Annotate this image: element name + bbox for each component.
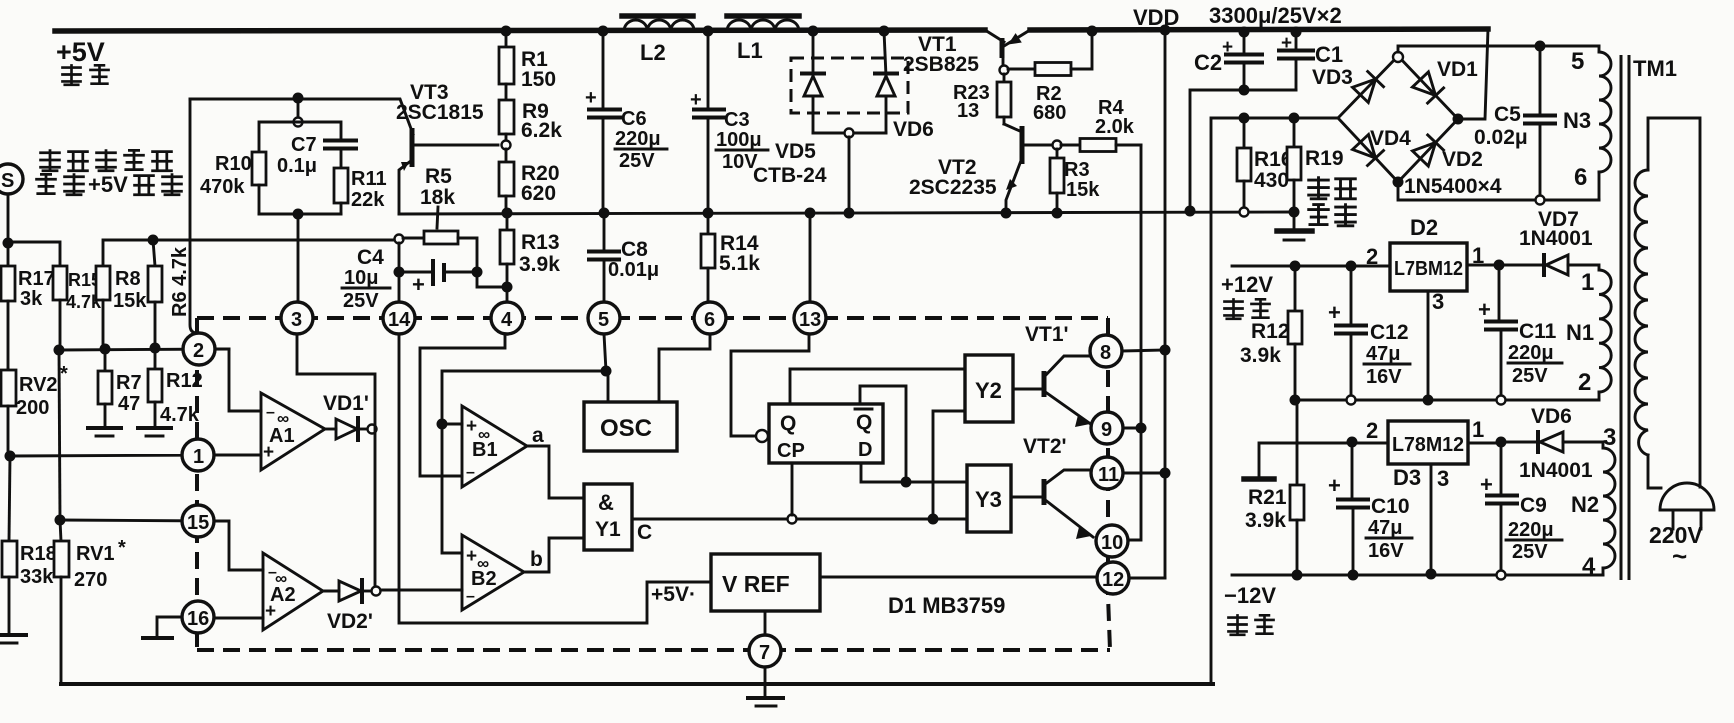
- pin 9: [1091, 412, 1123, 444]
- oscillator OSC box: [584, 402, 677, 451]
- wire D3 input to VD6 node: [1468, 442, 1501, 445]
- label VD7 1N4001: [1519, 208, 1593, 250]
- svg-text:1: 1: [1472, 417, 1484, 442]
- svg-text:L1: L1: [737, 38, 763, 63]
- wire pin4 DTC to B1 minus: [420, 334, 505, 476]
- resistor R9 6.2k: [499, 100, 562, 142]
- node sawtooth to B1 plus: [437, 419, 448, 430]
- terminal S sense: [0, 164, 23, 194]
- diode VD1: [1412, 72, 1443, 103]
- winding N3: [1563, 46, 1611, 200]
- node CP clock bubble: [756, 430, 768, 442]
- svg-text:R19: R19: [1305, 147, 1344, 170]
- gate Y2: [965, 355, 1013, 422]
- svg-text:R5: R5: [425, 165, 452, 188]
- svg-text:B1: B1: [472, 439, 498, 461]
- svg-text:+5V: +5V: [56, 37, 105, 67]
- svg-text:+: +: [690, 89, 702, 111]
- node junction VD6 cathode tap: [879, 26, 890, 37]
- ground below R19: [1277, 212, 1312, 240]
- node cap return on ground rail: [1185, 206, 1196, 217]
- svg-text:22k: 22k: [351, 189, 385, 211]
- capacitor C7 0.1u: [277, 122, 356, 177]
- wire VD2' output to B2 inverting input: [381, 589, 462, 592]
- svg-text:–: –: [266, 404, 275, 421]
- ground bracket at D3 pin2: [1244, 476, 1274, 482]
- svg-text:15k: 15k: [113, 290, 147, 312]
- node box top terminal: [294, 118, 303, 127]
- svg-text:10μ: 10μ: [344, 267, 378, 289]
- svg-text:6: 6: [1574, 164, 1587, 191]
- node pin13 tap on ground rail: [805, 208, 816, 219]
- svg-text:C3: C3: [724, 109, 750, 131]
- wire R4 down to pins 9/10 emitter line: [1128, 145, 1141, 540]
- label VT3 2SC1815: [396, 81, 484, 124]
- inductor L2: [622, 16, 694, 65]
- svg-text:1: 1: [1581, 269, 1594, 296]
- svg-text:6.2k: 6.2k: [521, 119, 562, 142]
- node C1 top on rail: [1291, 27, 1302, 38]
- svg-text:+5V: +5V: [88, 172, 128, 197]
- wire VREF bottom to pin7: [764, 611, 767, 636]
- wire pin14 Vref column down to +5V feed: [399, 334, 711, 623]
- node R6/R12 junction: [150, 343, 161, 354]
- svg-text:C5: C5: [1494, 103, 1521, 126]
- resistor R14 5.1k: [701, 213, 760, 302]
- node VT3 base / R9 R20 junction: [502, 141, 511, 150]
- pin 3: [281, 302, 313, 334]
- svg-text:25V: 25V: [619, 150, 655, 172]
- svg-text:14: 14: [388, 309, 411, 331]
- diode VD2': [323, 580, 371, 602]
- svg-text:+: +: [1480, 472, 1493, 497]
- label VD5 CTB-24: [753, 140, 827, 187]
- svg-text:*: *: [118, 537, 126, 559]
- ground below R18: [0, 635, 26, 643]
- wire D2 pin3 ground stem: [1427, 291, 1430, 400]
- resistor R3 15k: [1050, 149, 1100, 213]
- resistor R13 3.9k: [500, 213, 560, 302]
- diode VD4: [1353, 135, 1384, 166]
- node R8/R7 junction: [100, 344, 111, 355]
- node C6/C8 on ground rail: [599, 208, 610, 219]
- pin 1: [182, 439, 214, 471]
- svg-text:33k: 33k: [20, 566, 54, 588]
- gate Y1 AND: [584, 484, 632, 550]
- svg-text:VT1': VT1': [1025, 323, 1069, 346]
- svg-text:3.9k: 3.9k: [1240, 344, 1281, 367]
- node C5 bottom terminal: [1536, 196, 1545, 205]
- svg-text:0.1μ: 0.1μ: [277, 155, 317, 177]
- node C12 top: [1346, 261, 1357, 272]
- resistor R18 33k: [2, 456, 57, 633]
- node VT2 base: [1053, 141, 1062, 150]
- label -12V output: [1224, 583, 1276, 635]
- node C4/R5 right junction: [472, 267, 483, 278]
- svg-text:13: 13: [957, 100, 979, 122]
- comparator B2: [462, 535, 524, 610]
- svg-text:RV2: RV2: [19, 374, 58, 396]
- wire bottom ground bus: [61, 682, 1213, 686]
- wire error line wire1 to VT3 collector: [190, 99, 413, 134]
- resistor R17 3k: [1, 243, 55, 369]
- wire rail VT1 to VDD section: [1030, 29, 1488, 30]
- wire C1/C2 bottoms to ground rail: [1190, 90, 1296, 211]
- node C5 top: [1535, 41, 1546, 52]
- inductor L1: [727, 16, 799, 63]
- wire VDD line down to IC collectors and pin 12: [1164, 30, 1167, 578]
- node C10 top: [1347, 437, 1358, 448]
- pin 15: [182, 505, 214, 537]
- node VD1' output: [368, 425, 377, 434]
- svg-text:*: *: [60, 363, 68, 385]
- svg-text:VD6: VD6: [1531, 405, 1572, 428]
- potentiometer RV1 270: [54, 520, 126, 684]
- wire B2 output to Y1: [524, 538, 584, 572]
- svg-text:VD1': VD1': [323, 392, 369, 415]
- svg-text:CTB-24: CTB-24: [753, 164, 827, 187]
- pin 5: [588, 302, 620, 334]
- svg-text:D2: D2: [1410, 215, 1438, 240]
- pin 13: [794, 302, 826, 334]
- wire VREF output to pin12: [820, 576, 1097, 579]
- pin 14: [383, 302, 415, 334]
- comparator B1: [462, 406, 527, 487]
- svg-text:+5V·: +5V·: [651, 583, 696, 606]
- label +12V output: [1221, 272, 1273, 319]
- node C11 bottom terminal: [1497, 396, 1506, 405]
- node R20/R13 on ground rail: [502, 208, 513, 219]
- svg-text:3: 3: [291, 309, 302, 331]
- svg-text:5.1k: 5.1k: [719, 252, 760, 275]
- svg-text:220μ: 220μ: [1508, 342, 1554, 364]
- IC D1 dashed boundary right: [1108, 318, 1110, 650]
- svg-text:Q: Q: [780, 412, 796, 435]
- svg-text:5: 5: [1571, 48, 1584, 75]
- svg-text:7: 7: [759, 642, 770, 664]
- node D2 pin3 on common rail: [1423, 395, 1434, 406]
- svg-text:4: 4: [501, 309, 513, 331]
- potentiometer RV2 200: [1, 363, 68, 456]
- resistor R15 4.7k: [53, 266, 102, 351]
- wire D2 output to VD7 node: [1467, 264, 1499, 267]
- node VDD tap: [1160, 25, 1171, 36]
- svg-text:100μ: 100μ: [716, 129, 762, 151]
- node R16 top: [1239, 113, 1250, 124]
- node VD5 anode on ground rail: [844, 208, 855, 219]
- svg-text:+: +: [265, 601, 276, 622]
- node pin5/OSC junction: [601, 366, 612, 377]
- ground below pin 7: [748, 698, 783, 706]
- svg-text:8: 8: [1100, 342, 1111, 364]
- label VT1 2SB825: [903, 33, 979, 76]
- wire R10 box bottom: [259, 213, 341, 216]
- transistor VT1': [1044, 356, 1092, 427]
- svg-text:C4: C4: [357, 246, 384, 269]
- transistor VT1 2SB825 PNP switch: [985, 30, 1092, 66]
- capacitor C3 100u/10V: [690, 31, 768, 213]
- svg-text:+: +: [1281, 33, 1292, 54]
- transformer TM1 core: [1621, 55, 1629, 580]
- capacitor C4 10u/25V: [342, 246, 477, 312]
- winding primary: [1635, 118, 1700, 488]
- svg-text:VT2': VT2': [1023, 435, 1067, 458]
- wire feedback pin3 to diode outputs: [297, 334, 375, 587]
- wire S down to divider: [7, 194, 10, 243]
- mains plug 220V: [1649, 483, 1714, 571]
- svg-text:11: 11: [1098, 464, 1119, 486]
- svg-text:L2: L2: [640, 40, 666, 65]
- svg-text:9: 9: [1101, 419, 1112, 441]
- diode VD3: [1353, 72, 1384, 103]
- ground bracket left of pin 16: [143, 617, 182, 638]
- svg-text:VD3: VD3: [1312, 66, 1353, 89]
- capacitor C12 47u/16V: [1328, 266, 1410, 400]
- svg-text:RV1: RV1: [76, 543, 115, 565]
- svg-text:L7BM12: L7BM12: [1394, 258, 1463, 280]
- svg-text:C1: C1: [1315, 42, 1343, 67]
- svg-text:1N4001: 1N4001: [1519, 459, 1593, 482]
- wire pin15 to A2 inverting input: [215, 521, 263, 570]
- svg-text:3: 3: [1437, 466, 1449, 491]
- wire Y3 output to VT2' base: [1011, 496, 1044, 499]
- wire D3 pin2 to ground bracket: [1259, 443, 1388, 477]
- node bridge right vertex: [1453, 114, 1464, 125]
- svg-text:C11: C11: [1519, 320, 1557, 343]
- pin 2: [183, 333, 215, 365]
- svg-text:VD1: VD1: [1437, 58, 1478, 81]
- svg-text:R7: R7: [116, 372, 142, 394]
- node C2 top on rail: [1239, 27, 1250, 38]
- svg-text:0.02μ: 0.02μ: [1474, 126, 1528, 149]
- svg-text:N1: N1: [1566, 320, 1594, 345]
- bridge rectifier frame VD1-VD4: [1338, 56, 1458, 182]
- op-amp comparator A1: [261, 393, 325, 470]
- svg-text:VDD: VDD: [1133, 5, 1179, 30]
- wire R15 bottom column down to pin15 row: [59, 350, 60, 520]
- svg-text:220μ: 220μ: [615, 128, 661, 150]
- capacitor C5 0.02u: [1474, 46, 1555, 200]
- svg-text:16V: 16V: [1366, 366, 1402, 388]
- svg-text:47μ: 47μ: [1368, 517, 1402, 539]
- wire pin13 to CP bubble: [731, 334, 809, 436]
- svg-text:16: 16: [187, 608, 209, 630]
- node box bottom tap to pin3: [293, 209, 304, 220]
- svg-text:R6 4.7k: R6 4.7k: [169, 246, 191, 317]
- svg-text:270: 270: [74, 569, 107, 591]
- node RV1/pin15 junction: [55, 515, 66, 526]
- wire comparator divider row pin2: [59, 349, 229, 350]
- node pin9 emitter line: [1136, 423, 1147, 434]
- svg-text:2SC1815: 2SC1815: [396, 101, 484, 124]
- pin 16: [182, 601, 214, 633]
- wire ground rail (rail2): [399, 212, 1294, 214]
- svg-text:3: 3: [1432, 289, 1444, 314]
- svg-text:15: 15: [187, 512, 209, 534]
- wire -12V rail: [1232, 574, 1603, 577]
- node RV2/R18 junction: [5, 451, 16, 462]
- svg-text:R13: R13: [521, 231, 560, 254]
- node junction C6 top on +5V rail: [598, 26, 609, 37]
- wire +12V rail to D2: [1232, 265, 1390, 268]
- svg-text:+: +: [585, 87, 597, 109]
- svg-text:R18: R18: [20, 543, 57, 565]
- svg-text:2: 2: [1578, 369, 1591, 396]
- flip-flop D latch box: [769, 404, 883, 463]
- svg-text:2: 2: [1366, 418, 1378, 443]
- svg-text:+: +: [1222, 37, 1233, 58]
- op-amp comparator A2: [263, 553, 323, 630]
- regulator D3 L78M12 box: [1388, 421, 1468, 464]
- IC D1 dashed boundary left: [195, 318, 199, 650]
- svg-text:4.7k: 4.7k: [160, 404, 200, 426]
- resistor R23 13: [953, 74, 1011, 124]
- svg-text:–: –: [466, 588, 475, 605]
- wire +12V section common rail: [1295, 399, 1599, 402]
- svg-text:Y1: Y1: [595, 518, 621, 541]
- wire pin15 row: [60, 520, 215, 521]
- svg-text:L78M12: L78M12: [1392, 434, 1464, 456]
- pin 7: [749, 635, 781, 667]
- resistor R4 2.0k: [1061, 97, 1141, 152]
- capacitor C11 220u/25V: [1478, 265, 1562, 396]
- node bridge bottom vertex: [1393, 177, 1404, 188]
- resistor R12 4.7k: [148, 348, 203, 427]
- svg-text:12: 12: [1102, 569, 1124, 591]
- svg-text:R10: R10: [215, 153, 252, 175]
- node junction VD5 cathode tap: [808, 26, 819, 37]
- capacitor C1 3300u: [1279, 32, 1343, 90]
- resistor R2 680: [1008, 31, 1092, 124]
- svg-text:3.9k: 3.9k: [1245, 509, 1286, 532]
- label fuse resistor (Chinese): [1307, 176, 1357, 226]
- svg-text:N2: N2: [1571, 492, 1599, 517]
- capacitor C9 220u/25V: [1480, 442, 1562, 571]
- node junction L2/L1 C3 tap: [703, 26, 714, 37]
- wire bridge top to N3 pin5: [1398, 46, 1599, 52]
- wire Vref reference line R8/R6 tops to pin14 node: [153, 239, 394, 242]
- svg-text:Y3: Y3: [975, 487, 1002, 512]
- svg-text:VD5: VD5: [775, 140, 816, 163]
- svg-text:620: 620: [521, 182, 556, 205]
- svg-text:2SC2235: 2SC2235: [909, 176, 997, 199]
- resistor R6 4.7k (vertical label): [148, 240, 191, 348]
- svg-text:13: 13: [799, 309, 821, 331]
- node R21 bottom: [1292, 570, 1303, 581]
- svg-text:VD2': VD2': [327, 610, 373, 633]
- wire Y1 output C line: [632, 518, 966, 521]
- wire rail end down to bridge plus: [1458, 29, 1488, 119]
- wire Y2 output to VT1' base: [1013, 388, 1044, 391]
- wire pin12 to VDD line: [1129, 577, 1165, 580]
- node C line to Y2 stem: [928, 514, 939, 525]
- resistor R12 3.9k bleed: [1240, 266, 1302, 400]
- IC D1 dashed boundary top: [197, 316, 1108, 320]
- svg-text:VD2: VD2: [1442, 148, 1483, 171]
- wire VD5/VD6 anodes join: [813, 132, 886, 135]
- capacitor C8 0.01u: [589, 213, 659, 302]
- node R12 bottom: [1290, 395, 1301, 406]
- svg-text:−12V: −12V: [1224, 583, 1276, 608]
- svg-text:430: 430: [1254, 169, 1289, 192]
- wire RC to pin4 node: [477, 272, 507, 287]
- svg-text:+: +: [466, 416, 477, 437]
- transistor VT2': [1044, 470, 1093, 539]
- winding N2: [1582, 448, 1615, 580]
- svg-text:47μ: 47μ: [1366, 343, 1400, 365]
- svg-text:150: 150: [521, 68, 556, 91]
- svg-text:+12V: +12V: [1221, 272, 1273, 297]
- reference VREF box: [711, 554, 820, 611]
- node VD2' output: [372, 587, 381, 596]
- pin 6: [694, 302, 726, 334]
- svg-text:C7: C7: [291, 134, 317, 156]
- pin 4: [491, 302, 523, 334]
- label VT2 2SC2235: [909, 156, 997, 199]
- node R3 on ground rail: [1052, 208, 1063, 219]
- node CP stem on C line: [788, 515, 797, 524]
- node D3 input / C9 / VD6 junction: [1496, 437, 1507, 448]
- svg-text:470k: 470k: [200, 176, 245, 198]
- node pin8/VDD: [1160, 345, 1171, 356]
- node R6 top on Vref wire: [148, 235, 159, 246]
- node C3/R14 on ground rail: [703, 208, 714, 219]
- svg-text:OSC: OSC: [600, 415, 652, 442]
- svg-text:0.01μ: 0.01μ: [608, 259, 659, 281]
- wire tap down to box: [297, 98, 300, 118]
- node pin4/R13/RC junction: [502, 282, 513, 293]
- node C12 bottom terminal: [1347, 396, 1356, 405]
- node D2 input / C11 / VD7 junction: [1494, 260, 1505, 271]
- node R19 top: [1289, 113, 1300, 124]
- svg-text:CP: CP: [777, 440, 805, 462]
- node R15 bottom: [54, 345, 65, 356]
- wire bridge bottom to N3 pin6: [1398, 182, 1599, 200]
- svg-text:R8: R8: [115, 268, 141, 290]
- svg-text:V REF: V REF: [722, 571, 790, 597]
- svg-text:b: b: [530, 548, 543, 571]
- wire pin6 RT to OSC: [659, 334, 710, 402]
- svg-text:2: 2: [193, 340, 204, 362]
- svg-text:C12: C12: [1370, 321, 1409, 344]
- wire D3 pin3 stem: [1430, 464, 1433, 574]
- svg-text:3300μ/25V×2: 3300μ/25V×2: [1209, 3, 1342, 28]
- svg-text:R11: R11: [351, 168, 387, 190]
- node Qbar/D junction: [901, 477, 912, 488]
- node pin11/VDD: [1160, 468, 1171, 479]
- svg-text:C2: C2: [1194, 50, 1222, 75]
- svg-text:R17: R17: [18, 268, 55, 290]
- resistor R16 430: [1237, 118, 1293, 212]
- svg-text:+: +: [1328, 473, 1341, 498]
- wire pin9 to emitter line: [1123, 427, 1141, 430]
- svg-text:R21: R21: [1248, 486, 1287, 509]
- node anode join terminal: [845, 129, 854, 138]
- svg-text:C8: C8: [621, 238, 648, 261]
- wire pin16 to A2 plus input: [216, 617, 263, 620]
- svg-text:Q: Q: [856, 411, 872, 434]
- IC D1 dashed boundary bottom: [197, 648, 1110, 652]
- node C2 bottom: [1239, 85, 1250, 96]
- wire CP stem: [791, 463, 794, 515]
- svg-text:1N5400×4: 1N5400×4: [1404, 175, 1502, 198]
- svg-text:TM1: TM1: [1633, 56, 1677, 81]
- resistor R8 15k: [96, 240, 153, 349]
- resistor R20 620: [499, 149, 560, 214]
- svg-text:2.0k: 2.0k: [1095, 116, 1135, 138]
- svg-text:6: 6: [704, 309, 715, 331]
- transistor VT2 2SC2235 NPN driver: [1004, 124, 1052, 213]
